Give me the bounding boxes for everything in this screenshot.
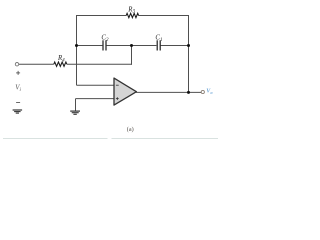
svg-text:(a): (a) [127, 126, 134, 133]
svg-text:Vo: Vo [206, 89, 213, 95]
